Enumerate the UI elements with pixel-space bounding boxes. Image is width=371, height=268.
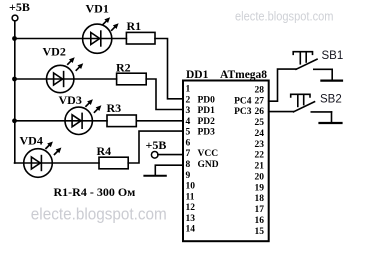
svg-text:20: 20 [255, 173, 265, 183]
wire pin27 to SB1 [269, 69, 296, 101]
ground [144, 175, 165, 177]
svg-text:23: 23 [255, 140, 265, 150]
svg-text:VD2: VD2 [43, 45, 66, 59]
wire R4 to IC pin5 [128, 131, 183, 163]
IC left pin numbers [186, 85, 196, 235]
LED VD2 arrows [67, 57, 75, 65]
svg-text:VD4: VD4 [20, 134, 43, 148]
wire row2 [15, 78, 117, 80]
svg-text:PD0: PD0 [198, 95, 216, 105]
svg-text:ATmega8: ATmega8 [220, 69, 267, 81]
svg-text:8: 8 [186, 160, 191, 170]
svg-text:VD1: VD1 [86, 2, 109, 16]
svg-text:9: 9 [186, 171, 191, 181]
wire pin8 to ground [155, 165, 183, 175]
svg-text:11: 11 [186, 192, 195, 202]
svg-text:PC4: PC4 [234, 96, 252, 106]
wire R2 to IC pin3 [146, 79, 183, 110]
svg-text:+5В: +5В [9, 0, 30, 14]
svg-text:22: 22 [255, 151, 265, 161]
svg-text:1: 1 [186, 85, 191, 95]
junction node VD1 row [12, 36, 17, 41]
svg-text:R4: R4 [97, 144, 112, 158]
wire R1 to IC pin2 [155, 39, 183, 99]
svg-text:27: 27 [255, 96, 265, 106]
svg-text:2: 2 [186, 95, 191, 105]
resistor R4 [99, 157, 128, 169]
svg-text:25: 25 [255, 118, 265, 128]
LED VD1 arrows [103, 17, 111, 25]
svg-text:SB1: SB1 [322, 50, 344, 62]
svg-text:R2: R2 [116, 61, 131, 75]
svg-text:12: 12 [186, 203, 196, 213]
svg-text:7: 7 [186, 149, 191, 159]
svg-text:PC3: PC3 [234, 107, 252, 117]
svg-text:10: 10 [186, 182, 196, 192]
LED VD3 arrows [85, 99, 93, 107]
svg-text:13: 13 [186, 214, 196, 224]
svg-text:DD1: DD1 [186, 69, 209, 81]
svg-text:26: 26 [255, 107, 265, 117]
svg-text:24: 24 [255, 129, 265, 139]
ground SB2 [331, 112, 333, 123]
svg-text:PD1: PD1 [198, 106, 216, 116]
svg-text:16: 16 [255, 216, 265, 226]
+5V VCC terminal [151, 152, 158, 159]
svg-text:R3: R3 [107, 101, 122, 115]
svg-text:14: 14 [186, 225, 196, 235]
svg-text:6: 6 [186, 139, 191, 149]
svg-text:17: 17 [255, 205, 265, 215]
svg-text:5: 5 [186, 128, 191, 138]
LED VD2 [47, 65, 74, 92]
wire R3 to IC pin4 [136, 120, 183, 122]
svg-text:4: 4 [186, 117, 191, 127]
wire row4 [15, 162, 100, 164]
ground SB1 [331, 69, 333, 80]
pushbutton SB2 [294, 102, 315, 112]
resistor R2 [117, 73, 147, 85]
LED VD4 arrows [45, 142, 53, 150]
svg-text:GND: GND [198, 160, 219, 170]
svg-text:21: 21 [255, 162, 265, 172]
junction node VD3 row [12, 118, 17, 123]
wire row1 [15, 38, 127, 40]
wire pin26 to SB2 [269, 111, 294, 113]
svg-text:15: 15 [255, 227, 265, 237]
junction node VD2 row [12, 77, 17, 82]
resistor R3 [107, 115, 136, 127]
left +5V rail wire [14, 21, 16, 163]
svg-text:electe.blogspot.com: electe.blogspot.com [235, 10, 334, 24]
svg-text:19: 19 [255, 183, 265, 193]
IC right pin numbers [255, 85, 265, 236]
IC left pin names [198, 95, 219, 170]
svg-text:PD3: PD3 [198, 128, 216, 138]
pushbutton SB1 [296, 59, 317, 69]
svg-text:18: 18 [255, 194, 265, 204]
svg-text:R1: R1 [127, 19, 142, 33]
wire VCC to pin7 [158, 154, 183, 156]
LED VD4 [24, 149, 53, 178]
wire row3 [15, 120, 108, 122]
IC right pin names [234, 96, 252, 117]
IC DD1 box [183, 81, 269, 242]
svg-text:28: 28 [255, 85, 265, 95]
LED VD1 [83, 24, 112, 53]
+5V rail terminal [12, 15, 18, 21]
svg-text:3: 3 [186, 106, 191, 116]
LED VD3 [65, 107, 92, 134]
svg-text:PD2: PD2 [198, 117, 216, 127]
resistor R1 [126, 32, 155, 44]
svg-text:+5В: +5В [146, 138, 167, 152]
svg-text:electe.blogspot.com: electe.blogspot.com [31, 206, 167, 224]
svg-text:R1-R4 - 300 Ом: R1-R4 - 300 Ом [54, 185, 136, 199]
svg-text:VD3: VD3 [59, 93, 82, 107]
svg-text:SB2: SB2 [320, 94, 342, 106]
svg-text:VCC: VCC [198, 149, 219, 159]
